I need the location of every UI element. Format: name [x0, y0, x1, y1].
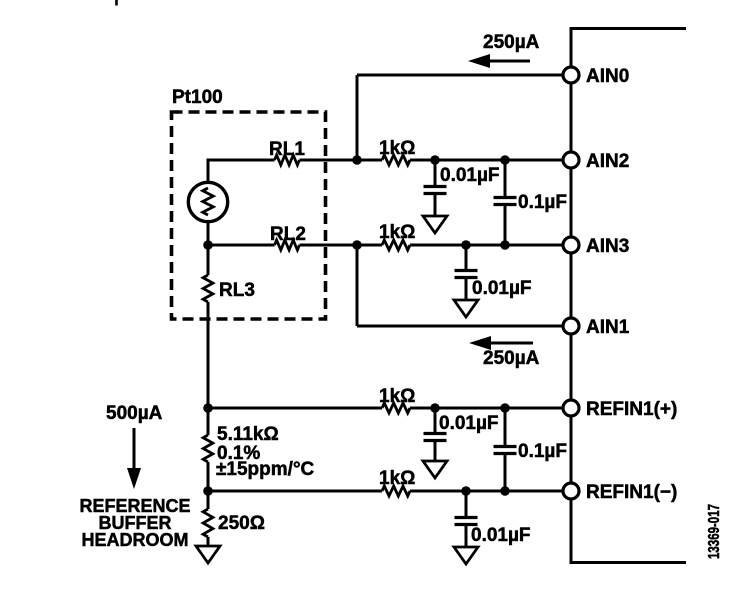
- label 0.01uF (AIN3): [472, 278, 532, 299]
- svg-text:AIN2: AIN2: [586, 151, 629, 172]
- pin label AIN3: [586, 236, 629, 257]
- wire RL3 upper lead: [207, 245, 210, 275]
- capacitor 0.1uF (REF): [494, 408, 517, 491]
- label RL1: [269, 139, 305, 160]
- wire 1k to REFIN1(-) pin: [410, 490, 563, 493]
- wire REFIN1(+) row: [208, 407, 382, 410]
- junction AIN2 0.1uF tap: [500, 155, 510, 165]
- wire RL3 to REFIN1(+) node: [207, 302, 210, 408]
- label 0.1uF (REF): [518, 441, 567, 462]
- pin AIN2 terminal circle: [563, 152, 579, 168]
- svg-text:RL3: RL3: [219, 280, 255, 301]
- label 5.11k 0.1% 15ppm: [216, 424, 315, 480]
- resistor RL1: [275, 155, 300, 165]
- svg-text:HEADROOM: HEADROOM: [82, 530, 189, 550]
- svg-text:0.01µF: 0.01µF: [439, 413, 499, 434]
- wire vertical junction-to-AIN0: [356, 75, 359, 160]
- svg-text:1kΩ: 1kΩ: [379, 222, 415, 243]
- svg-text:0.1µF: 0.1µF: [518, 441, 567, 462]
- resistor RL3: [203, 275, 213, 302]
- pin label AIN0: [586, 66, 629, 87]
- label 1k (AIN2 row): [379, 138, 415, 159]
- capacitor 0.01uF (AIN3): [455, 245, 478, 299]
- junction AIN3/AIN1 tap: [352, 240, 362, 250]
- pin label AIN1: [586, 317, 630, 338]
- junction REF+ 0.1uF tap: [500, 403, 510, 413]
- wire RTD top lead: [208, 160, 275, 182]
- label 1k (AIN3 row): [379, 222, 415, 243]
- svg-text:1kΩ: 1kΩ: [379, 138, 415, 159]
- svg-text:500µA: 500µA: [106, 403, 163, 424]
- ground (REF- cap): [454, 547, 478, 564]
- resistor 5.11k: [203, 435, 213, 462]
- wire 250ohm leads: [207, 491, 210, 546]
- svg-text:0.1µF: 0.1µF: [518, 192, 567, 213]
- pin AIN1 terminal circle: [563, 318, 579, 334]
- pin REFIN1(-) terminal circle: [563, 483, 579, 499]
- svg-text:±15ppm/°C: ±15ppm/°C: [216, 459, 315, 480]
- resistor R 1k (AIN3 row): [382, 240, 410, 250]
- pin AIN3 terminal circle: [563, 237, 579, 253]
- ground (REF+ cap): [423, 461, 447, 478]
- pin label REFIN1(+): [586, 399, 677, 420]
- label RL2: [270, 224, 306, 245]
- svg-text:250µA: 250µA: [483, 348, 540, 369]
- pin label REFIN1(-): [586, 482, 677, 503]
- svg-text:AIN3: AIN3: [586, 236, 629, 257]
- wire 1k to REFIN1(+) pin: [410, 407, 563, 410]
- wire AIN1 row: [357, 325, 563, 328]
- capacitor 0.01uF (REF+): [424, 408, 447, 460]
- wire 1k to AIN3 pin: [410, 244, 563, 247]
- resistor RL2: [275, 240, 300, 250]
- label 500uA: [106, 403, 163, 424]
- pin label AIN2: [586, 151, 629, 172]
- RTD internal resistor zigzag: [203, 188, 214, 215]
- label RL3: [219, 280, 255, 301]
- label 0.01uF (AIN2): [440, 165, 500, 186]
- junction AIN2 cap tap: [430, 155, 440, 165]
- label 250uA (bottom): [483, 348, 540, 369]
- svg-text:250µA: 250µA: [483, 32, 540, 53]
- wire RL2 to 1k: [300, 244, 383, 247]
- current arrow 250uA (bottom): [469, 336, 533, 350]
- label 0.01uF (REF+): [439, 413, 499, 434]
- resistor R 1k (AIN2 row): [382, 155, 410, 165]
- label 250ohm: [218, 513, 265, 534]
- junction RTD bottom node: [203, 240, 213, 250]
- svg-text:13369-017: 13369-017: [706, 504, 723, 559]
- label 1k (REFIN+ row): [379, 386, 415, 407]
- ground (AIN2 cap): [423, 216, 447, 233]
- resistor R 1k (REFIN+ row): [382, 403, 410, 413]
- svg-text:AIN0: AIN0: [586, 66, 629, 87]
- wire vertical junction-to-AIN1: [356, 245, 359, 326]
- label REFERENCE BUFFER HEADROOM: [79, 496, 190, 550]
- junction REF node left: [203, 403, 213, 413]
- label 250uA (top): [483, 32, 540, 53]
- svg-text:1kΩ: 1kΩ: [379, 468, 415, 489]
- capacitor 0.1uF (AIN2-AIN3): [494, 160, 517, 245]
- RTD element circle (Pt100): [188, 182, 227, 221]
- svg-text:AIN1: AIN1: [586, 317, 630, 338]
- Pt100 sensor dashed box: [172, 112, 326, 319]
- svg-text:REFIN1(+): REFIN1(+): [586, 399, 677, 420]
- junction AIN2/AIN0 tap: [352, 155, 362, 165]
- capacitor 0.01uF (REF-): [455, 491, 478, 546]
- label 0.1uF (AIN2-AIN3): [518, 192, 567, 213]
- junction AIN3 0.1uF tap: [500, 240, 510, 250]
- wire REFIN1(-) row: [208, 490, 382, 493]
- label 1k (REFIN- row): [379, 468, 415, 489]
- ground (250ohm): [196, 546, 220, 563]
- junction AIN3 cap tap: [461, 240, 471, 250]
- wire 5.11k leads: [207, 408, 210, 491]
- junction REF- cap tap: [461, 486, 471, 496]
- wire RTD bottom lead: [208, 222, 275, 245]
- wire 1k to AIN2 pin: [410, 159, 563, 162]
- figure number 13369-017: [706, 504, 723, 559]
- wire AIN0 row: [357, 74, 563, 77]
- pin REFIN1(+) terminal circle: [563, 400, 579, 416]
- label 0.01uF (REF-): [471, 525, 531, 546]
- svg-text:RL2: RL2: [270, 224, 306, 245]
- label Pt100: [172, 87, 223, 108]
- pin AIN0 terminal circle: [563, 67, 579, 83]
- resistor R 1k (REFIN- row): [382, 486, 410, 496]
- resistor 250ohm: [203, 509, 213, 537]
- svg-text:5.11kΩ: 5.11kΩ: [217, 424, 279, 445]
- junction REF- node left: [203, 486, 213, 496]
- ground (AIN3 cap): [454, 300, 478, 317]
- stray mark (cropped text remnant) top left: [115, 0, 118, 6]
- junction REF+ cap tap: [430, 403, 440, 413]
- svg-text:0.01µF: 0.01µF: [472, 278, 532, 299]
- svg-text:REFIN1(−): REFIN1(−): [586, 482, 677, 503]
- svg-text:RL1: RL1: [269, 139, 305, 160]
- svg-text:1kΩ: 1kΩ: [379, 386, 415, 407]
- svg-text:0.01µF: 0.01µF: [440, 165, 500, 186]
- capacitor 0.01uF (AIN2): [424, 160, 447, 215]
- svg-text:0.01µF: 0.01µF: [471, 525, 531, 546]
- svg-text:250Ω: 250Ω: [218, 513, 265, 534]
- current arrow 250uA (top): [468, 54, 530, 68]
- wire RL1 to 1k: [300, 159, 383, 162]
- ADC body outline (right side): [571, 29, 686, 563]
- current arrow 500uA: [127, 428, 141, 489]
- junction REF- 0.1uF tap: [500, 486, 510, 496]
- svg-text:Pt100: Pt100: [172, 87, 223, 108]
